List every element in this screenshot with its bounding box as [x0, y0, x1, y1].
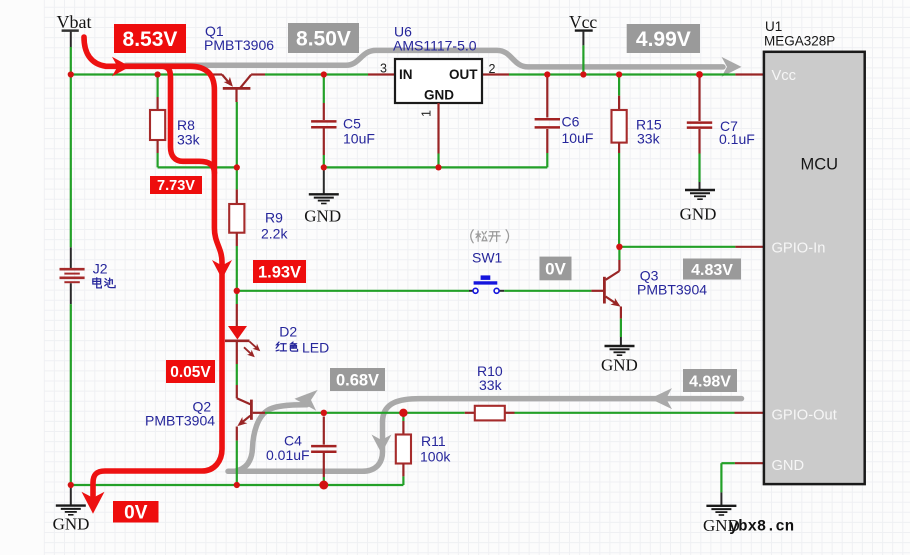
- svg-text:C6: C6: [562, 114, 580, 130]
- svg-text:GND: GND: [304, 207, 341, 226]
- svg-text:2: 2: [489, 62, 496, 76]
- svg-text:33k: 33k: [479, 377, 503, 393]
- svg-text:0V: 0V: [124, 503, 148, 524]
- svg-text:R11: R11: [421, 433, 446, 449]
- svg-text:J2: J2: [93, 261, 108, 277]
- svg-text:U1: U1: [765, 19, 782, 34]
- svg-text:PMBT3904: PMBT3904: [637, 282, 707, 298]
- svg-text:100k: 100k: [420, 448, 451, 464]
- svg-text:IN: IN: [399, 67, 413, 82]
- svg-text:8.53V: 8.53V: [123, 28, 178, 51]
- svg-text:LED: LED: [302, 339, 329, 355]
- svg-text:33k: 33k: [637, 131, 661, 147]
- svg-text:C5: C5: [343, 116, 361, 132]
- svg-text:0V: 0V: [545, 260, 566, 279]
- svg-text:MCU: MCU: [801, 156, 839, 174]
- svg-text:D2: D2: [279, 323, 297, 339]
- svg-text:PMBT3906: PMBT3906: [204, 37, 274, 53]
- svg-text:GND: GND: [53, 515, 90, 534]
- svg-text:8.50V: 8.50V: [296, 28, 351, 51]
- svg-text:4.99V: 4.99V: [636, 28, 691, 51]
- svg-text:GND: GND: [601, 356, 638, 375]
- svg-text:4.83V: 4.83V: [691, 262, 733, 279]
- svg-text:1: 1: [420, 110, 434, 117]
- svg-text:GND: GND: [424, 88, 454, 103]
- svg-text:GPIO-In: GPIO-In: [772, 241, 826, 257]
- svg-text:0.01uF: 0.01uF: [266, 447, 310, 463]
- svg-text:GND: GND: [772, 458, 805, 474]
- svg-text:0.68V: 0.68V: [336, 371, 379, 389]
- svg-text:PMBT3904: PMBT3904: [145, 412, 215, 428]
- svg-text:33k: 33k: [177, 132, 201, 148]
- svg-text:10uF: 10uF: [562, 130, 594, 146]
- svg-text:Vbat: Vbat: [57, 12, 92, 32]
- svg-text:7.73V: 7.73V: [157, 178, 195, 194]
- svg-text:SW1: SW1: [472, 249, 503, 265]
- svg-text:0.1uF: 0.1uF: [719, 131, 755, 147]
- svg-text:AMS1117-5.0: AMS1117-5.0: [393, 38, 477, 54]
- svg-text:Vcc: Vcc: [569, 12, 597, 32]
- svg-text:2.2k: 2.2k: [261, 226, 288, 242]
- svg-text:1.93V: 1.93V: [258, 263, 301, 281]
- svg-text:R9: R9: [265, 210, 283, 226]
- svg-text:Vcc: Vcc: [772, 68, 796, 84]
- svg-text:OUT: OUT: [449, 67, 478, 82]
- svg-text:4.98V: 4.98V: [689, 373, 731, 390]
- svg-text:0.05V: 0.05V: [170, 364, 211, 381]
- svg-text:ybx8.cn: ybx8.cn: [729, 518, 794, 536]
- svg-text:GND: GND: [680, 205, 717, 224]
- svg-text:3: 3: [380, 62, 387, 76]
- svg-text:MEGA328P: MEGA328P: [764, 34, 835, 49]
- svg-text:GPIO-Out: GPIO-Out: [772, 408, 837, 424]
- svg-text:10uF: 10uF: [343, 131, 375, 147]
